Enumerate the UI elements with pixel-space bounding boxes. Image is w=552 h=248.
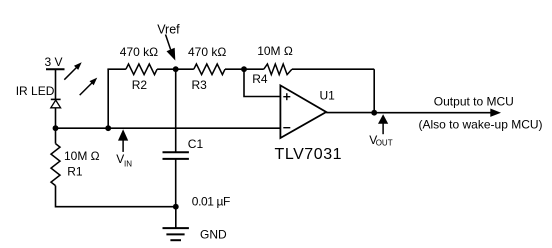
svg-text:470 kΩ: 470 kΩ <box>188 45 226 59</box>
wire 3V rail to LED cathode <box>55 69 57 99</box>
svg-text:R1: R1 <box>67 165 83 179</box>
svg-text:V: V <box>116 152 124 166</box>
wire VIN node to op-amp inverting input <box>56 127 281 129</box>
node Vref <box>157 23 180 73</box>
junction R2 branch on VIN wire <box>105 125 111 131</box>
wire junction to R4 <box>244 68 264 70</box>
node ground junction <box>173 204 179 210</box>
svg-text:C1: C1 <box>188 137 204 151</box>
svg-text:Vref: Vref <box>157 23 180 37</box>
svg-text:IN: IN <box>124 159 132 168</box>
svg-text:10M Ω: 10M Ω <box>64 149 100 163</box>
svg-text:Output to MCU: Output to MCU <box>434 94 514 108</box>
wire R1 bottom to ground rail <box>56 186 176 207</box>
capacitor C1 0.01 µF <box>163 137 231 209</box>
wire junction down to op-amp non-inverting input <box>244 69 280 96</box>
svg-text:U1: U1 <box>320 89 336 103</box>
svg-text:R4: R4 <box>252 72 268 86</box>
diode IR LED <box>16 84 61 108</box>
resistor R4 10M Ω <box>252 44 293 86</box>
wire R4 to feedback corner <box>292 68 374 70</box>
wire output to MCU arrow <box>374 94 542 131</box>
svg-text:OUT: OUT <box>376 139 393 148</box>
svg-text:10M Ω: 10M Ω <box>257 44 293 58</box>
svg-text:R2: R2 <box>132 78 148 92</box>
node output junction <box>371 110 377 116</box>
svg-text:IR LED: IR LED <box>16 84 55 98</box>
wire R2 left lead <box>107 68 126 70</box>
node R3 R4 junction <box>241 66 247 72</box>
ground <box>163 227 228 241</box>
svg-text:GND: GND <box>200 227 227 241</box>
resistor R1 10M Ω <box>51 144 100 186</box>
resistor R2 470 kΩ <box>120 45 158 92</box>
svg-text:0.01 µF: 0.01 µF <box>192 195 230 209</box>
svg-text:3 V: 3 V <box>45 55 63 69</box>
wire LED anode to node VIN <box>55 108 57 128</box>
wire Vref node down to C1 <box>175 69 177 152</box>
wire Vref to R3 <box>176 68 194 70</box>
node VIN junction <box>53 125 59 131</box>
svg-text:R3: R3 <box>192 78 208 92</box>
svg-text:TLV7031: TLV7031 <box>275 146 343 163</box>
wire R2 to Vref node <box>157 68 176 70</box>
wire R3 to feedback node <box>225 68 244 70</box>
op-amp U1 <box>275 85 343 162</box>
svg-text:470 kΩ: 470 kΩ <box>120 45 158 59</box>
wire op-amp output to output node <box>326 112 374 114</box>
wire C1 bottom to ground node <box>175 159 177 207</box>
wire VIN node down to R1 <box>55 128 57 143</box>
power rail 3 V <box>45 55 65 69</box>
label VIN with arrow <box>116 129 132 168</box>
LED light arrows <box>64 62 97 95</box>
wire ground node to GND symbol <box>175 207 177 228</box>
svg-text:(Also to wake-up MCU): (Also to wake-up MCU) <box>419 118 543 132</box>
wire R2 left terminal down to VIN wire <box>107 69 109 128</box>
label VOUT with arrow <box>369 114 393 147</box>
wire feedback drop to output node <box>373 69 375 113</box>
resistor R3 470 kΩ <box>188 45 226 92</box>
